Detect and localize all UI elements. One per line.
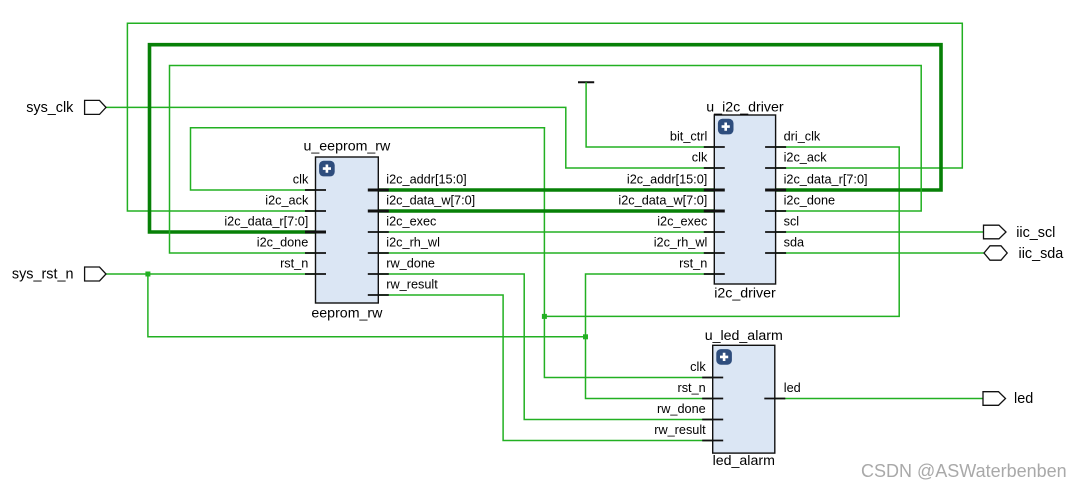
pin stub eeprom_rw.i2c_addr[15:0] bbox=[368, 188, 389, 191]
svg-text:rw_done: rw_done bbox=[657, 402, 706, 416]
pin stub eeprom_rw.clk bbox=[305, 189, 326, 191]
svg-text:led: led bbox=[784, 381, 801, 395]
wire net dri_clk from i2c_driver bbox=[544, 147, 899, 316]
svg-text:led_alarm: led_alarm bbox=[713, 453, 775, 469]
svg-text:i2c_rh_wl: i2c_rh_wl bbox=[386, 236, 440, 250]
input port sys_clk bbox=[26, 100, 106, 116]
svg-text:rw_result: rw_result bbox=[386, 278, 438, 292]
svg-text:sys_rst_n: sys_rst_n bbox=[12, 267, 74, 283]
svg-text:i2c_exec: i2c_exec bbox=[657, 215, 708, 229]
wire net i2c_data_w[7:0] bus bbox=[378, 209, 714, 213]
pin stub led_alarm.rw_done bbox=[702, 419, 723, 421]
pin stub eeprom_rw.rw_done bbox=[368, 273, 389, 275]
svg-text:CSDN @ASWaterbenben: CSDN @ASWaterbenben bbox=[861, 461, 1067, 481]
svg-text:rst_n: rst_n bbox=[677, 381, 705, 395]
junction sys_rst_n mid branch bbox=[583, 334, 588, 339]
svg-text:iic_sda: iic_sda bbox=[1019, 246, 1064, 262]
pin stub led_alarm.clk bbox=[702, 377, 723, 379]
pin stub eeprom_rw.i2c_exec bbox=[368, 231, 389, 233]
svg-text:rst_n: rst_n bbox=[280, 257, 308, 271]
svg-text:clk: clk bbox=[293, 173, 309, 187]
svg-text:i2c_ack: i2c_ack bbox=[265, 194, 309, 208]
pin stub i2c_driver.bit_ctrl bbox=[704, 146, 725, 148]
svg-text:scl: scl bbox=[784, 215, 800, 229]
wire net bit_ctrl bbox=[586, 83, 714, 147]
wire net i2c_ack bbox=[127, 23, 962, 211]
pin stub eeprom_rw.rst_n bbox=[305, 273, 326, 275]
pin stub i2c_driver.i2c_data_w[7:0] bbox=[704, 209, 725, 212]
module u_led_alarm bbox=[705, 328, 783, 469]
pin stub i2c_driver.clk bbox=[704, 167, 725, 169]
pin stub i2c_driver.dri_clk bbox=[765, 146, 786, 148]
junction sys_rst_n at port branch bbox=[145, 272, 150, 277]
svg-text:u_led_alarm: u_led_alarm bbox=[705, 328, 783, 344]
wire net sys_clk: port to i2c_driver clk bbox=[106, 107, 714, 168]
wire net rw_done bbox=[378, 274, 712, 420]
svg-text:sys_clk: sys_clk bbox=[26, 100, 74, 116]
watermark CSDN bbox=[861, 461, 1068, 482]
pin stub led_alarm.rst_n bbox=[702, 398, 723, 400]
unconnected net cap for bit_ctrl bbox=[578, 81, 594, 83]
svg-text:i2c_exec: i2c_exec bbox=[386, 215, 437, 229]
svg-text:bit_ctrl: bit_ctrl bbox=[670, 130, 707, 144]
wire net i2c_exec bbox=[378, 231, 714, 233]
junction dri_clk branch bbox=[542, 314, 547, 319]
pin stub i2c_driver.scl bbox=[765, 231, 786, 233]
wire net iic_sda bbox=[776, 252, 984, 254]
pin stub i2c_driver.i2c_done bbox=[765, 210, 786, 212]
svg-text:i2c_data_w[7:0]: i2c_data_w[7:0] bbox=[618, 194, 707, 208]
input port sys_rst_n bbox=[12, 267, 106, 283]
svg-text:i2c_done: i2c_done bbox=[257, 236, 309, 250]
svg-text:i2c_data_w[7:0]: i2c_data_w[7:0] bbox=[386, 194, 475, 208]
svg-text:i2c_ack: i2c_ack bbox=[784, 151, 828, 165]
wire net iic_scl bbox=[776, 231, 984, 233]
wire net sys_rst_n branch bbox=[148, 274, 586, 337]
svg-text:iic_scl: iic_scl bbox=[1016, 225, 1055, 241]
wire net sys_rst_n to led_alarm rst_n bbox=[586, 337, 713, 399]
svg-text:led: led bbox=[1014, 391, 1033, 407]
pin stub i2c_driver.i2c_ack bbox=[765, 167, 786, 169]
output port iic_scl bbox=[984, 225, 1056, 241]
svg-text:i2c_driver: i2c_driver bbox=[714, 286, 776, 302]
pin stub eeprom_rw.rw_result bbox=[368, 294, 389, 296]
wire net i2c_addr[15:0] bus bbox=[378, 188, 714, 192]
output port led bbox=[983, 391, 1033, 407]
svg-text:i2c_rh_wl: i2c_rh_wl bbox=[654, 236, 708, 250]
inout port iic_sda bbox=[984, 246, 1063, 262]
pin stub eeprom_rw.i2c_data_r[7:0] bbox=[305, 230, 326, 233]
pin stub i2c_driver.i2c_rh_wl bbox=[704, 252, 725, 254]
wire net i2c_data_r[7:0] bus bbox=[150, 45, 942, 232]
pin stub eeprom_rw.i2c_rh_wl bbox=[368, 252, 389, 254]
svg-text:dri_clk: dri_clk bbox=[784, 130, 821, 144]
wire net sys_rst_n to i2c_driver rst_n bbox=[586, 274, 715, 337]
pin stub eeprom_rw.i2c_ack bbox=[305, 210, 326, 212]
pin stub i2c_driver.i2c_data_r[7:0] bbox=[765, 188, 786, 191]
module u_i2c_driver bbox=[706, 100, 784, 302]
svg-text:u_i2c_driver: u_i2c_driver bbox=[706, 100, 784, 116]
pin stub led_alarm.rw_result bbox=[702, 440, 723, 442]
pin stub i2c_driver.i2c_exec bbox=[704, 231, 725, 233]
pin stub i2c_driver.rst_n bbox=[704, 273, 725, 275]
wire net sys_rst_n: port to eeprom_rw rst_n bbox=[106, 273, 316, 275]
svg-text:rw_result: rw_result bbox=[654, 423, 706, 437]
wire net i2c_rh_wl bbox=[378, 252, 714, 254]
pin stub i2c_driver.i2c_addr[15:0] bbox=[704, 188, 725, 191]
wire net led bbox=[775, 398, 983, 400]
svg-text:i2c_addr[15:0]: i2c_addr[15:0] bbox=[386, 173, 466, 187]
svg-text:sda: sda bbox=[784, 236, 805, 250]
svg-text:i2c_data_r[7:0]: i2c_data_r[7:0] bbox=[784, 173, 868, 187]
svg-text:rst_n: rst_n bbox=[679, 257, 707, 271]
wire net i2c_done bbox=[170, 66, 922, 254]
svg-text:eeprom_rw: eeprom_rw bbox=[311, 306, 383, 322]
svg-text:u_eeprom_rw: u_eeprom_rw bbox=[304, 139, 392, 155]
svg-text:clk: clk bbox=[690, 360, 706, 374]
wire net dri_clk top to eeprom clk bbox=[191, 128, 545, 190]
svg-text:rw_done: rw_done bbox=[386, 257, 435, 271]
svg-text:i2c_data_r[7:0]: i2c_data_r[7:0] bbox=[224, 215, 308, 229]
pin stub eeprom_rw.i2c_data_w[7:0] bbox=[368, 209, 389, 212]
wire net dri_clk vertical bbox=[544, 128, 712, 378]
pin stub eeprom_rw.i2c_done bbox=[305, 252, 326, 254]
svg-text:i2c_addr[15:0]: i2c_addr[15:0] bbox=[627, 173, 707, 187]
pin stub led_alarm.led bbox=[764, 398, 785, 400]
module u_eeprom_rw bbox=[304, 139, 392, 322]
svg-text:i2c_done: i2c_done bbox=[784, 194, 836, 208]
wire net rw_result bbox=[378, 295, 712, 441]
svg-text:clk: clk bbox=[692, 151, 708, 165]
pin stub i2c_driver.sda bbox=[765, 252, 786, 254]
